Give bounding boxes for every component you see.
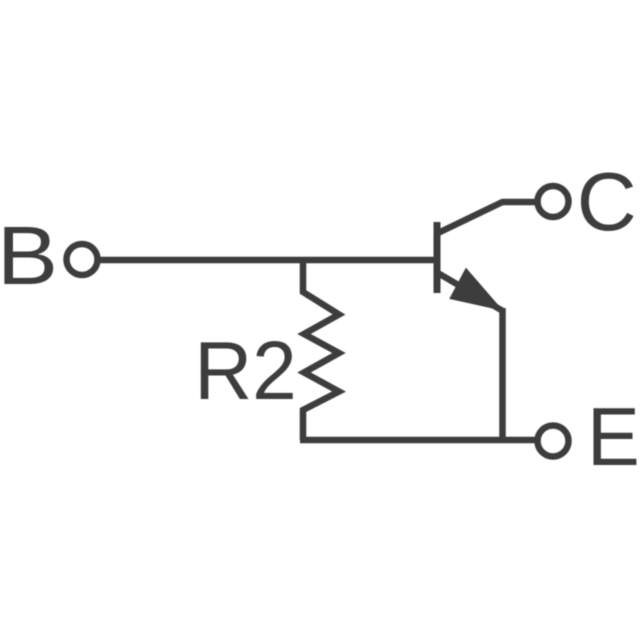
svg-text:R2: R2: [194, 324, 297, 417]
svg-text:B: B: [0, 209, 58, 302]
svg-text:C: C: [577, 155, 637, 248]
svg-text:E: E: [587, 390, 640, 483]
